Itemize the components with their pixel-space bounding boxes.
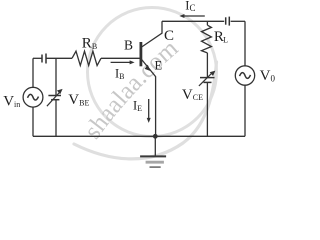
svg-text:V0: V0 <box>260 68 276 84</box>
svg-text:E: E <box>155 58 163 72</box>
svg-text:Vin: Vin <box>3 94 20 110</box>
svg-text:VBE: VBE <box>68 92 89 108</box>
svg-text:RB: RB <box>82 36 97 52</box>
svg-text:C: C <box>164 28 174 44</box>
svg-text:VCE: VCE <box>182 87 203 103</box>
svg-text:IB: IB <box>115 67 125 82</box>
svg-text:IC: IC <box>185 0 195 13</box>
svg-text:IE: IE <box>133 99 142 114</box>
svg-text:RL: RL <box>214 29 228 45</box>
svg-text:B: B <box>124 38 133 53</box>
